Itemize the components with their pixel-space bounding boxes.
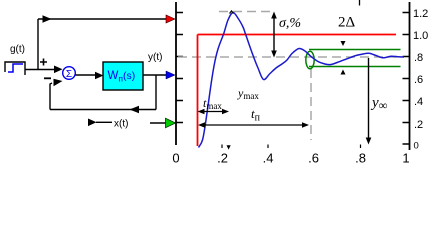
grey dashed 0.8 level xyxy=(178,56,400,58)
left axis xyxy=(175,2,177,145)
svg-text:.4: .4 xyxy=(263,151,274,166)
x(t) legend arrowhead xyxy=(88,119,97,127)
green wire x into axis xyxy=(150,122,167,124)
blue response curve xyxy=(199,12,405,147)
step source blue step xyxy=(8,64,23,72)
green band bottom xyxy=(309,66,401,68)
red arrowhead g into axis xyxy=(166,15,175,23)
svg-text:σ,%: σ,% xyxy=(279,16,301,31)
band arrow down xyxy=(341,41,346,46)
svg-text:.8: .8 xyxy=(414,52,423,64)
feedback vertical into summer xyxy=(50,83,52,110)
band arrow up xyxy=(341,70,346,75)
svg-text:0: 0 xyxy=(414,141,419,152)
arrowhead into block xyxy=(95,72,104,80)
red step vertical xyxy=(197,35,199,147)
t_max double arrow xyxy=(202,111,226,113)
arrowhead on top wire xyxy=(43,15,52,23)
grey dashed ymax level xyxy=(219,11,274,13)
minus sign xyxy=(44,77,51,79)
svg-text:2Δ: 2Δ xyxy=(338,15,356,31)
svg-text:.4: .4 xyxy=(414,96,423,108)
x(t) legend line xyxy=(96,121,112,123)
y_inf arrow xyxy=(368,58,370,139)
wire step to summer xyxy=(25,69,58,71)
green ellipse entry marker xyxy=(306,51,314,69)
wire top to axis xyxy=(38,18,169,20)
arrowhead feedback into summer xyxy=(54,79,63,86)
x ticks xyxy=(222,145,361,149)
wire branch vertical xyxy=(37,19,39,70)
svg-text:.8: .8 xyxy=(355,151,366,166)
red reference line 1.0 xyxy=(198,34,397,36)
feedback bottom wire xyxy=(50,109,156,111)
peak caret xyxy=(230,11,234,14)
svg-text:Σ: Σ xyxy=(66,69,72,80)
green band top xyxy=(309,49,401,51)
svg-text:1.2: 1.2 xyxy=(413,8,428,20)
svg-text:1: 1 xyxy=(402,151,409,166)
wire summer to block xyxy=(76,74,100,76)
svg-text:.2: .2 xyxy=(414,119,423,131)
block Wp(s) xyxy=(103,62,143,90)
sigma double arrow xyxy=(273,16,275,53)
right axis xyxy=(409,2,411,150)
svg-text:y∞: y∞ xyxy=(370,95,388,113)
mystery tick top xyxy=(359,0,361,6)
svg-text:1.0: 1.0 xyxy=(413,30,428,42)
t_max marker arrowhead on axis xyxy=(227,145,231,149)
green arrowhead x into axis xyxy=(166,118,176,127)
svg-text:.6: .6 xyxy=(308,151,319,166)
blue arrowhead y into axis xyxy=(166,71,175,79)
svg-text:x(t): x(t) xyxy=(114,119,128,130)
arrowhead on feedback wire xyxy=(130,106,140,114)
svg-text:0: 0 xyxy=(172,151,179,166)
step source symbol frame xyxy=(5,62,25,75)
left axis ticks xyxy=(176,13,183,123)
arrowhead into summer plus input xyxy=(54,66,63,74)
t_p double arrow xyxy=(202,124,305,126)
svg-text:y(t): y(t) xyxy=(148,52,162,63)
right axis ticks xyxy=(403,13,410,145)
summing junction circle xyxy=(63,67,76,80)
grey dashed vertical t_p xyxy=(310,69,312,140)
plus sign xyxy=(40,59,47,66)
svg-text:.6: .6 xyxy=(414,74,423,86)
wire block to axis xyxy=(143,74,170,76)
svg-text:g(t): g(t) xyxy=(10,44,25,55)
svg-text:.2: .2 xyxy=(217,151,228,166)
feedback tap vertical xyxy=(155,75,157,110)
